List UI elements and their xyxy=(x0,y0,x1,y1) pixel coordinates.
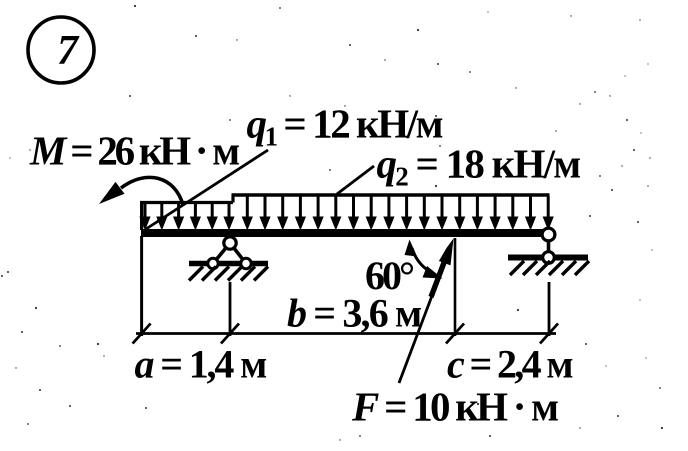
extension line at force point xyxy=(454,238,457,336)
circled figure number 7 xyxy=(28,17,94,83)
svg-text:b = 3,6 м: b = 3,6 м xyxy=(287,291,421,336)
svg-text:a = 1,4 м: a = 1,4 м xyxy=(135,342,267,387)
distributed load q1 block outline xyxy=(140,203,233,231)
beam xyxy=(141,229,548,237)
q2 leader line xyxy=(337,166,374,194)
extension line below roller support xyxy=(548,282,551,336)
extension line below pin support xyxy=(229,282,232,336)
roller/link support (right) xyxy=(508,228,589,275)
distributed load q2 arrows xyxy=(242,196,554,231)
svg-text:F = 10 кН · м: F = 10 кН · м xyxy=(351,384,558,430)
extension line at beam left end xyxy=(140,236,143,336)
svg-text:M = 26 кН · м: M = 26 кН · м xyxy=(29,128,239,174)
60 degree angle arc with arrowheads xyxy=(405,240,443,279)
distributed load q2 top line xyxy=(232,195,550,203)
q1 leader line xyxy=(146,150,268,229)
pin support (left, hinged) xyxy=(189,237,268,281)
dimension line xyxy=(136,332,556,335)
moment arrow (counterclockwise arc) xyxy=(99,177,183,205)
svg-text:q2 = 18 кН/м: q2 = 18 кН/м xyxy=(377,141,581,192)
svg-text:c = 2,4 м: c = 2,4 м xyxy=(447,342,572,387)
force F arrow at 60 deg xyxy=(399,239,454,384)
svg-text:7: 7 xyxy=(57,28,80,74)
distributed load q1 arrows xyxy=(139,204,234,231)
dimension ticks xyxy=(133,324,558,344)
